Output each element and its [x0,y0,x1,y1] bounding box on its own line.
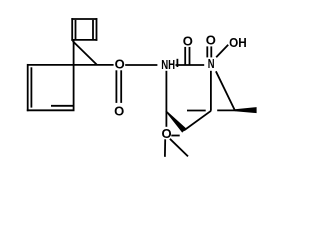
short stub bond right of NH [176,59,178,67]
cyclobutadiene square left outer bond [71,18,73,41]
bond N diagonal down-right [216,71,235,110]
carbonyl C=O line 2 [189,47,191,65]
bond N down to V3 [210,71,212,111]
bond N to OH [216,45,228,58]
O=O double bond line 2 below ester O [120,70,122,103]
horizontal bond left of V3 [187,110,206,112]
methyl wedge bond [235,107,257,113]
ring right vertical bond from square corner down [73,40,75,110]
svg-text:O: O [206,32,216,47]
svg-text:NH: NH [161,57,175,72]
cyclohexadiene ring bottom edge [27,109,75,111]
svg-text:N: N [208,56,215,71]
bond NH down through C to methoxy O [165,71,167,127]
carbonyl C=O line 1 [184,47,186,65]
cyclohexadiene ring left outer bond [27,64,29,111]
cyclobutadiene square bottom edge [71,39,97,41]
O=O double bond line 1 below ester O [115,70,117,103]
svg-text:O: O [115,57,125,72]
methoxy O methyl bond down [164,139,166,157]
cyclohexadiene ring bottom inner double-bond line [51,105,74,107]
cyclobutadiene square top edge [71,18,97,20]
cyclobutadiene square left inner double-bond line [75,20,77,39]
bond V2 to V3 diagonal [184,111,211,131]
cyclobutadiene square right inner double-bond line [92,20,94,39]
svg-text:O: O [114,103,124,118]
wedge bond V1 to V2 [165,110,186,132]
cyclobutadiene square right outer bond [96,18,98,41]
svg-text:OH: OH [229,35,247,50]
N=O double bond line 2 [210,46,212,57]
ring top edge continuing to ester O [28,64,114,66]
chain bond NH to carbonyl C to N [176,64,205,66]
N=O double bond line 1 [206,46,208,57]
cyclohexadiene ring left inner double-bond line [30,67,32,107]
horizontal bond to methyl wedge [217,109,235,111]
diagonal bond from methoxy O down-right [170,139,188,157]
stub bond right of methoxy O [171,135,179,137]
svg-text:O: O [162,126,172,141]
svg-text:O: O [183,33,193,48]
diagonal bond from square corner to chain vertex [73,41,97,65]
bond ester O to NH [125,64,157,66]
